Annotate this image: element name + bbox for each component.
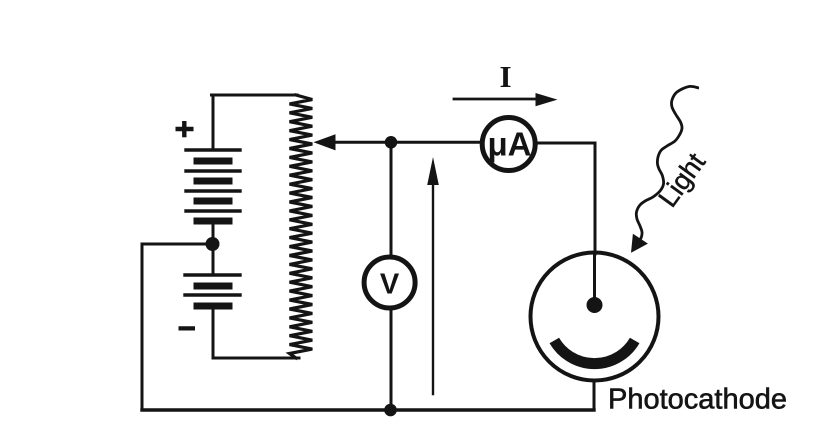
battery B1 positive section: bar 1 (197, 158, 229, 165)
svg-text:I: I (499, 59, 511, 94)
svg-text:V: V (380, 269, 400, 301)
wire battery negative terminal down (212, 309, 215, 358)
wire junction to battery negative section (212, 244, 215, 274)
wire down to phototube (594, 143, 597, 254)
label battery plus (176, 121, 194, 137)
resistor R1 (rheostat zigzag) (290, 95, 313, 358)
wire ammeter to phototube top corner (536, 142, 595, 145)
battery B1 negative section: bar 2 (197, 303, 229, 310)
node: battery center tap junction (206, 237, 220, 251)
node: voltmeter bottom junction (384, 404, 397, 417)
wire voltmeter branch lower (390, 309, 393, 410)
current arrowhead (I) (536, 93, 558, 106)
wire top rail to rheostat (212, 94, 298, 97)
current arrow line (I) (454, 98, 540, 101)
battery B1 positive section: plate 3 (186, 189, 240, 192)
battery B1 negative section: plate 1 (185, 273, 240, 276)
wire anode lead inside phototube (593, 254, 596, 300)
voltage arrow line (up) (432, 180, 434, 394)
battery B1 positive section: plate 4 (186, 209, 240, 212)
svg-text:Photocathode: Photocathode (608, 384, 787, 416)
battery B1 positive section: plate 1 (186, 148, 240, 151)
voltmeter U2 circle (364, 257, 415, 308)
wire rheostat wiper to voltmeter junction and ammeter (333, 141, 480, 144)
wire battery middle to center-tap junction (212, 224, 215, 244)
battery B1 positive section: bar 4 (197, 218, 229, 225)
wire center tap junction to left rail (142, 243, 213, 246)
battery B1 positive section: bar 3 (197, 198, 229, 205)
svg-text:Light: Light (653, 147, 712, 212)
photocathode electrode arc (554, 341, 634, 364)
ammeter U1 circle (482, 118, 535, 171)
wire phototube bottom lead (593, 381, 596, 410)
rheostat wiper arrowhead (314, 134, 336, 150)
node: voltmeter top junction (385, 136, 398, 149)
battery B1 negative section: plate 2 (185, 293, 240, 296)
light ray squiggle (636, 86, 699, 243)
battery B1 positive section: plate 2 (186, 169, 240, 172)
light arrowhead (631, 234, 648, 253)
wire battery positive terminal to top rail (212, 95, 215, 149)
wire bottom rail (142, 408, 594, 411)
label battery minus (179, 326, 196, 330)
svg-text:μA: μA (487, 126, 531, 163)
voltage arrowhead (up) (427, 157, 439, 185)
wire left rail down (141, 244, 144, 410)
phototube anode dot (587, 297, 603, 313)
phototube V1 envelope (531, 253, 659, 381)
battery B1 positive section: bar 2 (197, 178, 229, 185)
battery B1 negative section: bar 1 (197, 283, 229, 290)
wire voltmeter branch upper (390, 142, 393, 256)
wire battery bottom to rheostat bottom (213, 357, 299, 360)
